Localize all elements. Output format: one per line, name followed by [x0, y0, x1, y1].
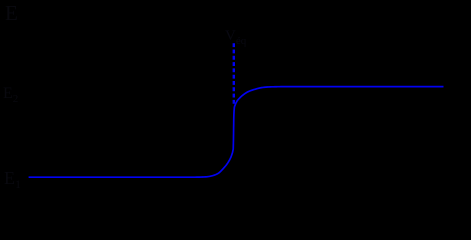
node E2 (upper plateau potential label) [3, 85, 18, 105]
wire dashed equivalence line [233, 43, 235, 104]
svg-text:E: E [5, 1, 18, 25]
node E1 (lower plateau potential label) [4, 168, 21, 191]
node E (y-axis label) [5, 1, 18, 25]
node Veq (equivalence volume label) [225, 28, 247, 47]
wire titration curve [29, 87, 444, 178]
